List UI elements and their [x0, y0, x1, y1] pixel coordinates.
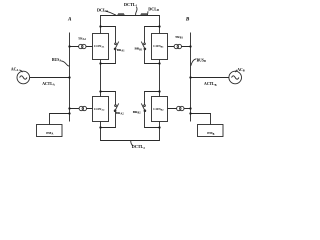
svg-text:B: B [185, 17, 190, 23]
svg-text:DCLB: DCLB [148, 6, 159, 12]
svg-text:ACA: ACA [11, 67, 19, 72]
svg-text:ACTLB: ACTLB [204, 82, 217, 87]
svg-text:BUSA: BUSA [52, 58, 61, 63]
svg-text:BUSB: BUSB [197, 58, 206, 63]
svg-text:BRA1: BRA1 [117, 48, 126, 53]
svg-text:CONA1: CONA1 [94, 44, 105, 49]
svg-text:ACB: ACB [237, 68, 244, 73]
svg-text:BRB1: BRB1 [135, 47, 143, 52]
svg-text:CONA2: CONA2 [94, 107, 105, 112]
svg-text:CONB1: CONB1 [153, 44, 164, 49]
svg-text:A: A [67, 16, 72, 22]
svg-text:ACTLA: ACTLA [42, 82, 55, 87]
svg-text:TRA1: TRA1 [78, 37, 87, 42]
svg-text:CONB2: CONB2 [153, 107, 164, 112]
svg-text:DCTL1: DCTL1 [124, 2, 138, 8]
svg-text:DCLA: DCLA [97, 7, 109, 13]
svg-text:BRB2: BRB2 [133, 110, 141, 115]
svg-text:TRB1: TRB1 [175, 35, 183, 40]
svg-text:DCTL2: DCTL2 [132, 144, 146, 150]
svg-text:BRA2: BRA2 [116, 111, 125, 116]
svg-text:PMA: PMA [46, 131, 53, 136]
svg-text:PMB: PMB [207, 131, 214, 136]
